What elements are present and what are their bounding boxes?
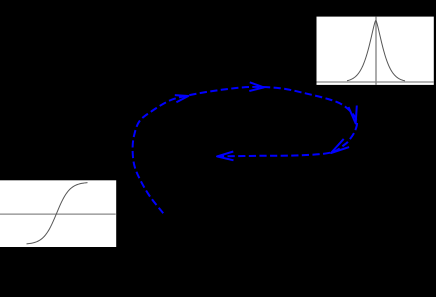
- arrowhead A2: [249, 82, 264, 91]
- arrowhead A4: [331, 139, 349, 153]
- sigmoid horizontal axis line: [0, 213, 116, 215]
- sigmoid curve: [27, 183, 88, 244]
- inset axes: gaussian pdf (top right): [317, 17, 434, 85]
- arrowhead A1: [175, 95, 189, 102]
- arrowhead A3: [349, 106, 357, 124]
- gaussian horizontal axis line: [317, 81, 434, 83]
- gaussian vertical axis line: [375, 17, 377, 85]
- arrowhead A5: [217, 152, 234, 161]
- gaussian bell curve: [347, 20, 405, 80]
- blue dashed cycle curve: [133, 87, 357, 213]
- inset axes: sigmoid / cdf (bottom left): [0, 180, 116, 247]
